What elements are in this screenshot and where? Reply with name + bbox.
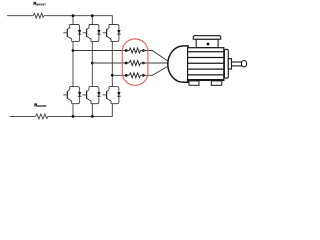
wire: phase A to motor <box>141 51 169 62</box>
junction dot top bus leg2 <box>91 14 94 17</box>
motor body ribs <box>188 52 224 75</box>
wire: phase B to motor <box>141 62 170 64</box>
highlight ellipse (red) around motor winding resistances <box>122 39 148 85</box>
wire: phase C to motor <box>141 66 169 76</box>
resistor R_shunt (bottom) <box>35 114 48 119</box>
motor M1 <box>168 36 247 86</box>
IGBT Q3 high-side phase B <box>83 25 101 42</box>
wire: phase C line <box>112 74 129 76</box>
motor shaft hub <box>228 59 231 69</box>
wire: top DC bus left segment <box>7 15 33 17</box>
resistor R_shunt (top) <box>33 13 44 18</box>
IGBT Q4 low-side phase B <box>83 87 101 104</box>
node phase B resistor left <box>125 62 128 65</box>
junction dot top bus leg1 <box>72 14 75 17</box>
wire: leg3 midpoint vertical <box>111 42 113 87</box>
svg-text:RSHUNT: RSHUNT <box>33 1 46 7</box>
motor shaft <box>232 62 243 66</box>
wire: bottom bus with corner up to leg3 <box>10 115 36 117</box>
IGBT Q5 high-side phase C <box>103 25 121 42</box>
wire: leg2 to bottom bus <box>91 104 93 117</box>
motor left end bell <box>168 46 188 82</box>
node phase C resistor right <box>142 74 145 77</box>
svg-text:RSHUNT: RSHUNT <box>34 102 47 108</box>
resistor phase B winding <box>129 61 141 66</box>
node phase C resistor left <box>125 74 128 77</box>
junction dot bottom bus leg2 <box>91 115 94 118</box>
motor foot left <box>189 81 199 85</box>
node phase B resistor right <box>142 62 145 65</box>
wire: top DC bus to third leg with corner down <box>44 16 112 25</box>
junction dot bottom bus leg1 <box>72 115 75 118</box>
motor body <box>188 48 224 80</box>
wire: leg1 midpoint vertical <box>72 42 74 87</box>
IGBT Q6 low-side phase C <box>103 87 121 104</box>
node phase A junction <box>72 49 75 52</box>
wire: leg1 drop from top bus <box>72 16 74 25</box>
IGBT Q2 low-side phase A <box>63 87 81 104</box>
motor terminal box base <box>196 39 218 48</box>
wire: leg1 to bottom bus <box>72 104 74 117</box>
motor foot right <box>211 81 222 85</box>
motor terminal box lid <box>193 36 221 40</box>
node phase A resistor left <box>125 49 128 52</box>
IGBT Q1 high-side phase A <box>63 25 81 42</box>
motor body bottom rail <box>187 79 225 81</box>
resistor phase C winding <box>129 73 141 78</box>
motor right end plate <box>224 49 228 78</box>
resistor phase A winding <box>129 48 141 53</box>
motor terminal box dot <box>207 43 210 46</box>
motor shaft knob <box>242 61 247 67</box>
wire: leg2 drop from top bus <box>91 16 93 25</box>
wire: bottom bus right segment <box>48 104 112 117</box>
wire: leg2 midpoint vertical <box>91 42 93 87</box>
wire: phase A line <box>73 50 129 52</box>
node phase A resistor right <box>142 49 145 52</box>
node phase B junction <box>91 62 94 65</box>
node phase C junction <box>111 74 114 77</box>
wire: phase B line <box>92 62 129 64</box>
